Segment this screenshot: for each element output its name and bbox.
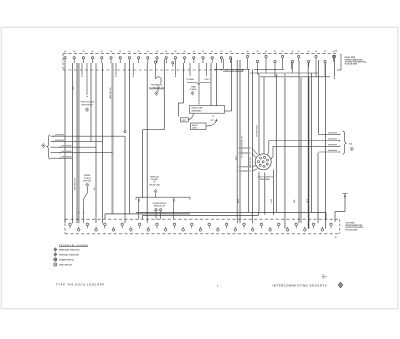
svg-text:J1: J1 [335,237,337,239]
label block LBL5 with diamond [86,63,88,95]
J-ckt circular connector on rear panel [255,154,271,170]
svg-text:INTERCONNECTING: INTERCONNECTING [346,225,364,227]
wire x91 [90,63,92,142]
svg-text:+150 V: +150 V [204,79,211,81]
wire x308.2 [307,63,309,229]
svg-text:PLUG-IN UNIT,: PLUG-IN UNIT, [346,229,359,231]
pickoff label with arc (LBL1) [154,61,156,63]
wire x248.7 [248,69,250,212]
w2 drop into J-ckt top right [268,141,269,155]
wire into delay box [198,63,200,103]
wire x259 below J-ckt [258,172,260,213]
left bracket brace [47,135,51,159]
wire x183.5 jog to CRT oval [183,63,185,103]
wire x211 [210,63,212,106]
svg-text:INTERCONNECTING: INTERCONNECTING [345,59,363,61]
left wire y147.2 [51,146,97,148]
right bracket brace [343,131,347,154]
right-top arrow stub [334,58,336,77]
dual-arrow label (LBL2) [189,63,191,74]
svg-text:LINE 2: LINE 2 [192,127,197,129]
right wire y146.3 [273,145,339,147]
svg-text:B SGNL: B SGNL [190,89,198,91]
wire x231.6 into delay box right edge [231,58,233,111]
CRT oval label [181,118,189,122]
left wire y136.2 [51,135,126,137]
svg-text:POWER SUPPLY: POWER SUPPLY [153,203,167,205]
routing bus under top strip right [214,68,250,70]
svg-text:SWEEP: SWEEP [84,175,91,177]
right wire y134.4 [318,133,339,135]
wire x318 to J1 [317,153,319,224]
bottom routing bus [136,211,326,213]
pin end of wire x125 [124,131,126,133]
svg-text:POWER SUPPLY: POWER SUPPLY [59,259,75,261]
sub connector strip [136,196,190,198]
wire x259 into J-ckt [258,74,260,154]
arrows entering bottom bus [78,212,79,213]
svg-text:MODULE CKT: MODULE CKT [154,205,166,207]
J-ckt top/bottom wires [259,154,261,156]
bottom-right stub with T-bar [343,193,348,195]
svg-text:SWP CKT: SWP CKT [83,180,92,182]
wire x129.5 [129,63,131,214]
bottom strip pins [69,223,72,226]
connector J2 top strip outline (dashed) [63,53,337,55]
delay line box U1 [190,106,225,114]
wire x125 from left bracket corner [124,136,126,223]
svg-text:PLUG-IN UNIT,: PLUG-IN UNIT, [345,64,358,66]
svg-text:J2: J2 [335,51,337,53]
wire x237.2 [236,60,238,223]
wire x164.3 cornering left into x142.6 [163,59,165,130]
wire x77.0 [76,63,78,223]
bottom connector strip J1 outline [65,218,340,220]
wire x318.6 to bracket [318,60,320,134]
wire x96 [95,63,97,223]
left wire y158.2 [51,157,73,159]
wire x273.5 [273,170,275,215]
wire x252.5 [252,69,254,223]
right wire y152.0 [319,151,339,153]
wire x65 [64,63,66,223]
top strip pins group B [246,55,248,57]
svg-text:PICKOFF SIG: PICKOFF SIG [151,85,163,87]
svg-text:PWR SUPPLY: PWR SUPPLY [81,104,94,106]
wire x264 into J-ckt [263,77,265,153]
left wire y141.7 [51,141,103,143]
wire x264.8 below J-ckt [264,173,266,215]
shielded cable x284.9 [284,73,286,229]
shielded cable x112.5 [111,63,114,214]
arrow stubs below strip [81,63,83,75]
svg-text:SOCKET FOR HORIZ.: SOCKET FOR HORIZ. [346,227,364,229]
J-ckt leader labels [239,147,251,148]
wire x276.3 [275,74,277,212]
shielded cable x240 [239,60,241,223]
wire x125 [124,63,126,131]
wire x299 [298,61,300,224]
stub pin x172.8 [172,62,174,64]
left group diamond symbol [42,143,46,147]
wire x325.4 [324,63,326,229]
wire x72.5 [72,63,74,223]
right group diamond [350,147,353,151]
tek diamond logo [338,282,342,287]
svg-text:RIGHT SIDE: RIGHT SIDE [345,57,356,59]
shielded cable x301 [300,77,302,223]
right wire y140.5 [269,140,339,142]
wire x147.2 [146,63,148,223]
w3 drop into J-ckt right [271,146,273,159]
top strip pins group A [64,57,66,59]
svg-text:GRID CIRCUIT: GRID CIRCUIT [59,264,73,266]
left wire y152.7 [51,152,113,154]
wire x311.4 [310,73,312,212]
wire x102.5 [102,63,104,223]
wire x308.9 [308,77,310,229]
svg-text:LEFT SIDE: LEFT SIDE [346,223,356,225]
shielded cable x78.8 [78,63,80,223]
wire x216.4 [215,63,217,106]
right-top strip corner [340,54,342,70]
small box under delay line [191,123,207,129]
